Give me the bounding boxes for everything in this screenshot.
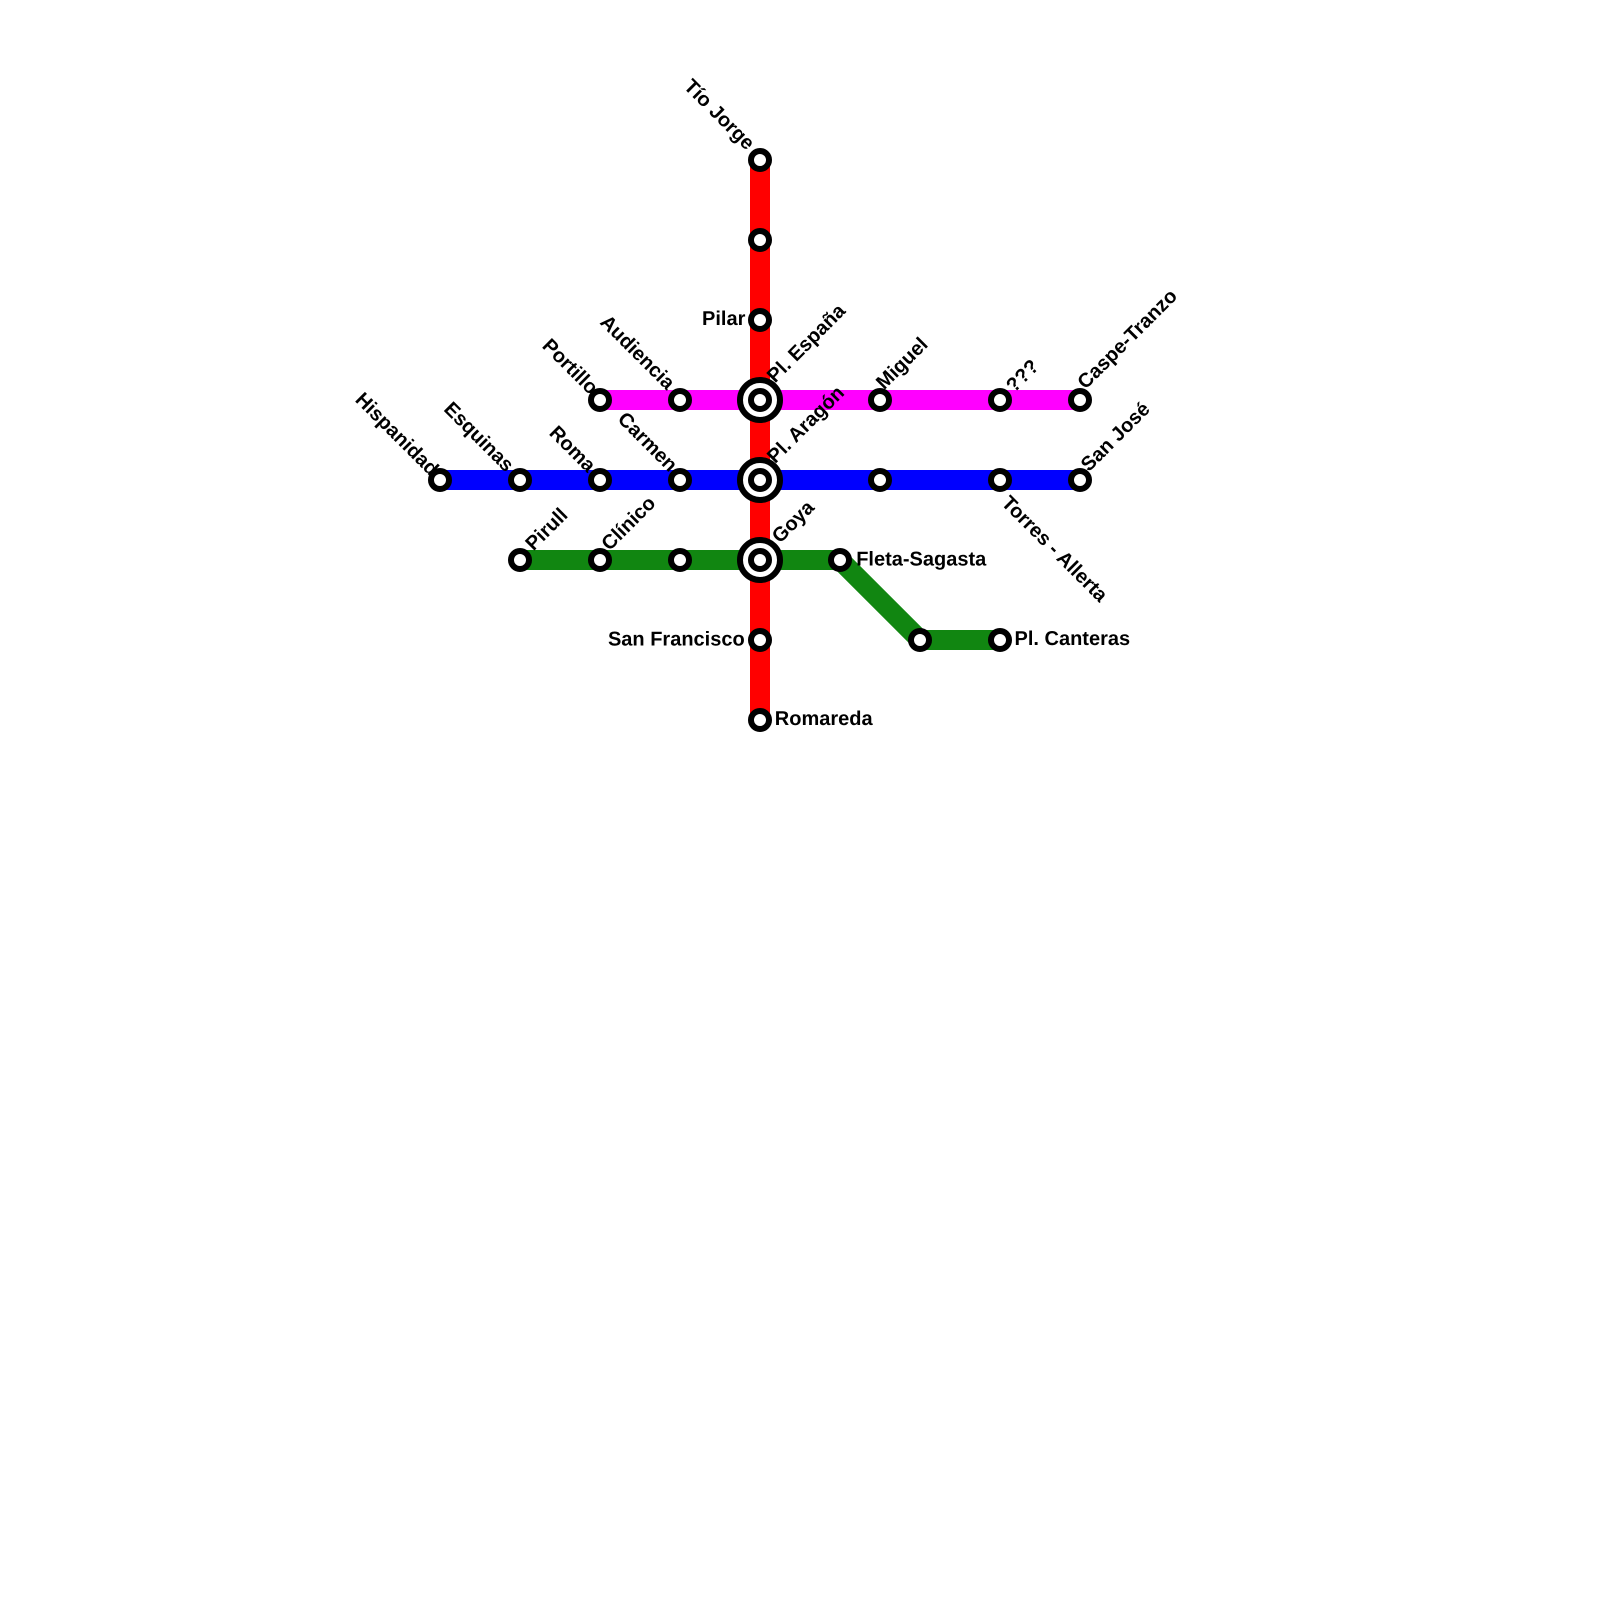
svg-text:Pl. Canteras: Pl. Canteras bbox=[1015, 628, 1131, 650]
station unnamed green elbow station bbox=[911, 631, 929, 649]
station San Jose bbox=[1071, 398, 1155, 489]
station Caspe-Tranzo bbox=[1071, 285, 1182, 409]
red line 1 (Tio Jorge - Romareda) bbox=[750, 160, 770, 720]
station Audiencia bbox=[596, 311, 689, 409]
station Pl. Espana interchange bbox=[740, 299, 851, 420]
station Pl. Canteras bbox=[991, 628, 1130, 650]
station Torres - Allerta bbox=[991, 471, 1112, 607]
station Goya interchange bbox=[740, 496, 820, 580]
station Carmen bbox=[613, 408, 689, 489]
station Esquinas bbox=[439, 398, 529, 489]
green line 4 (Pirull - Pl. Canteras) bbox=[520, 560, 1000, 640]
station Romareda bbox=[751, 708, 873, 730]
station Pl. Aragon interchange bbox=[740, 382, 849, 500]
station Tio Jorge bbox=[679, 75, 769, 169]
svg-text:Romareda: Romareda bbox=[775, 708, 874, 730]
magenta line 2 (Portillo - Caspe-Tranzo) bbox=[600, 390, 1080, 410]
svg-text:Fleta-Sagasta: Fleta-Sagasta bbox=[856, 549, 987, 571]
station Fleta-Sagasta bbox=[831, 549, 987, 571]
station station ??? bbox=[991, 355, 1044, 409]
blue line 3 (Hispanidad - San Jose) bbox=[440, 470, 1080, 490]
station Miguel bbox=[871, 334, 933, 409]
station Portillo bbox=[538, 335, 609, 409]
station Clinico bbox=[591, 492, 660, 569]
station unnamed green station bbox=[671, 551, 689, 569]
svg-text:Pilar: Pilar bbox=[702, 308, 746, 330]
station Pilar bbox=[702, 308, 769, 330]
station unnamed blue station bbox=[871, 471, 889, 489]
station unnamed red station bbox=[751, 231, 769, 249]
station Roma bbox=[545, 422, 609, 489]
station San Francisco bbox=[608, 629, 769, 651]
svg-text:San Francisco: San Francisco bbox=[608, 629, 745, 651]
station Hispanidad bbox=[351, 389, 449, 489]
station Pirull bbox=[511, 504, 572, 569]
